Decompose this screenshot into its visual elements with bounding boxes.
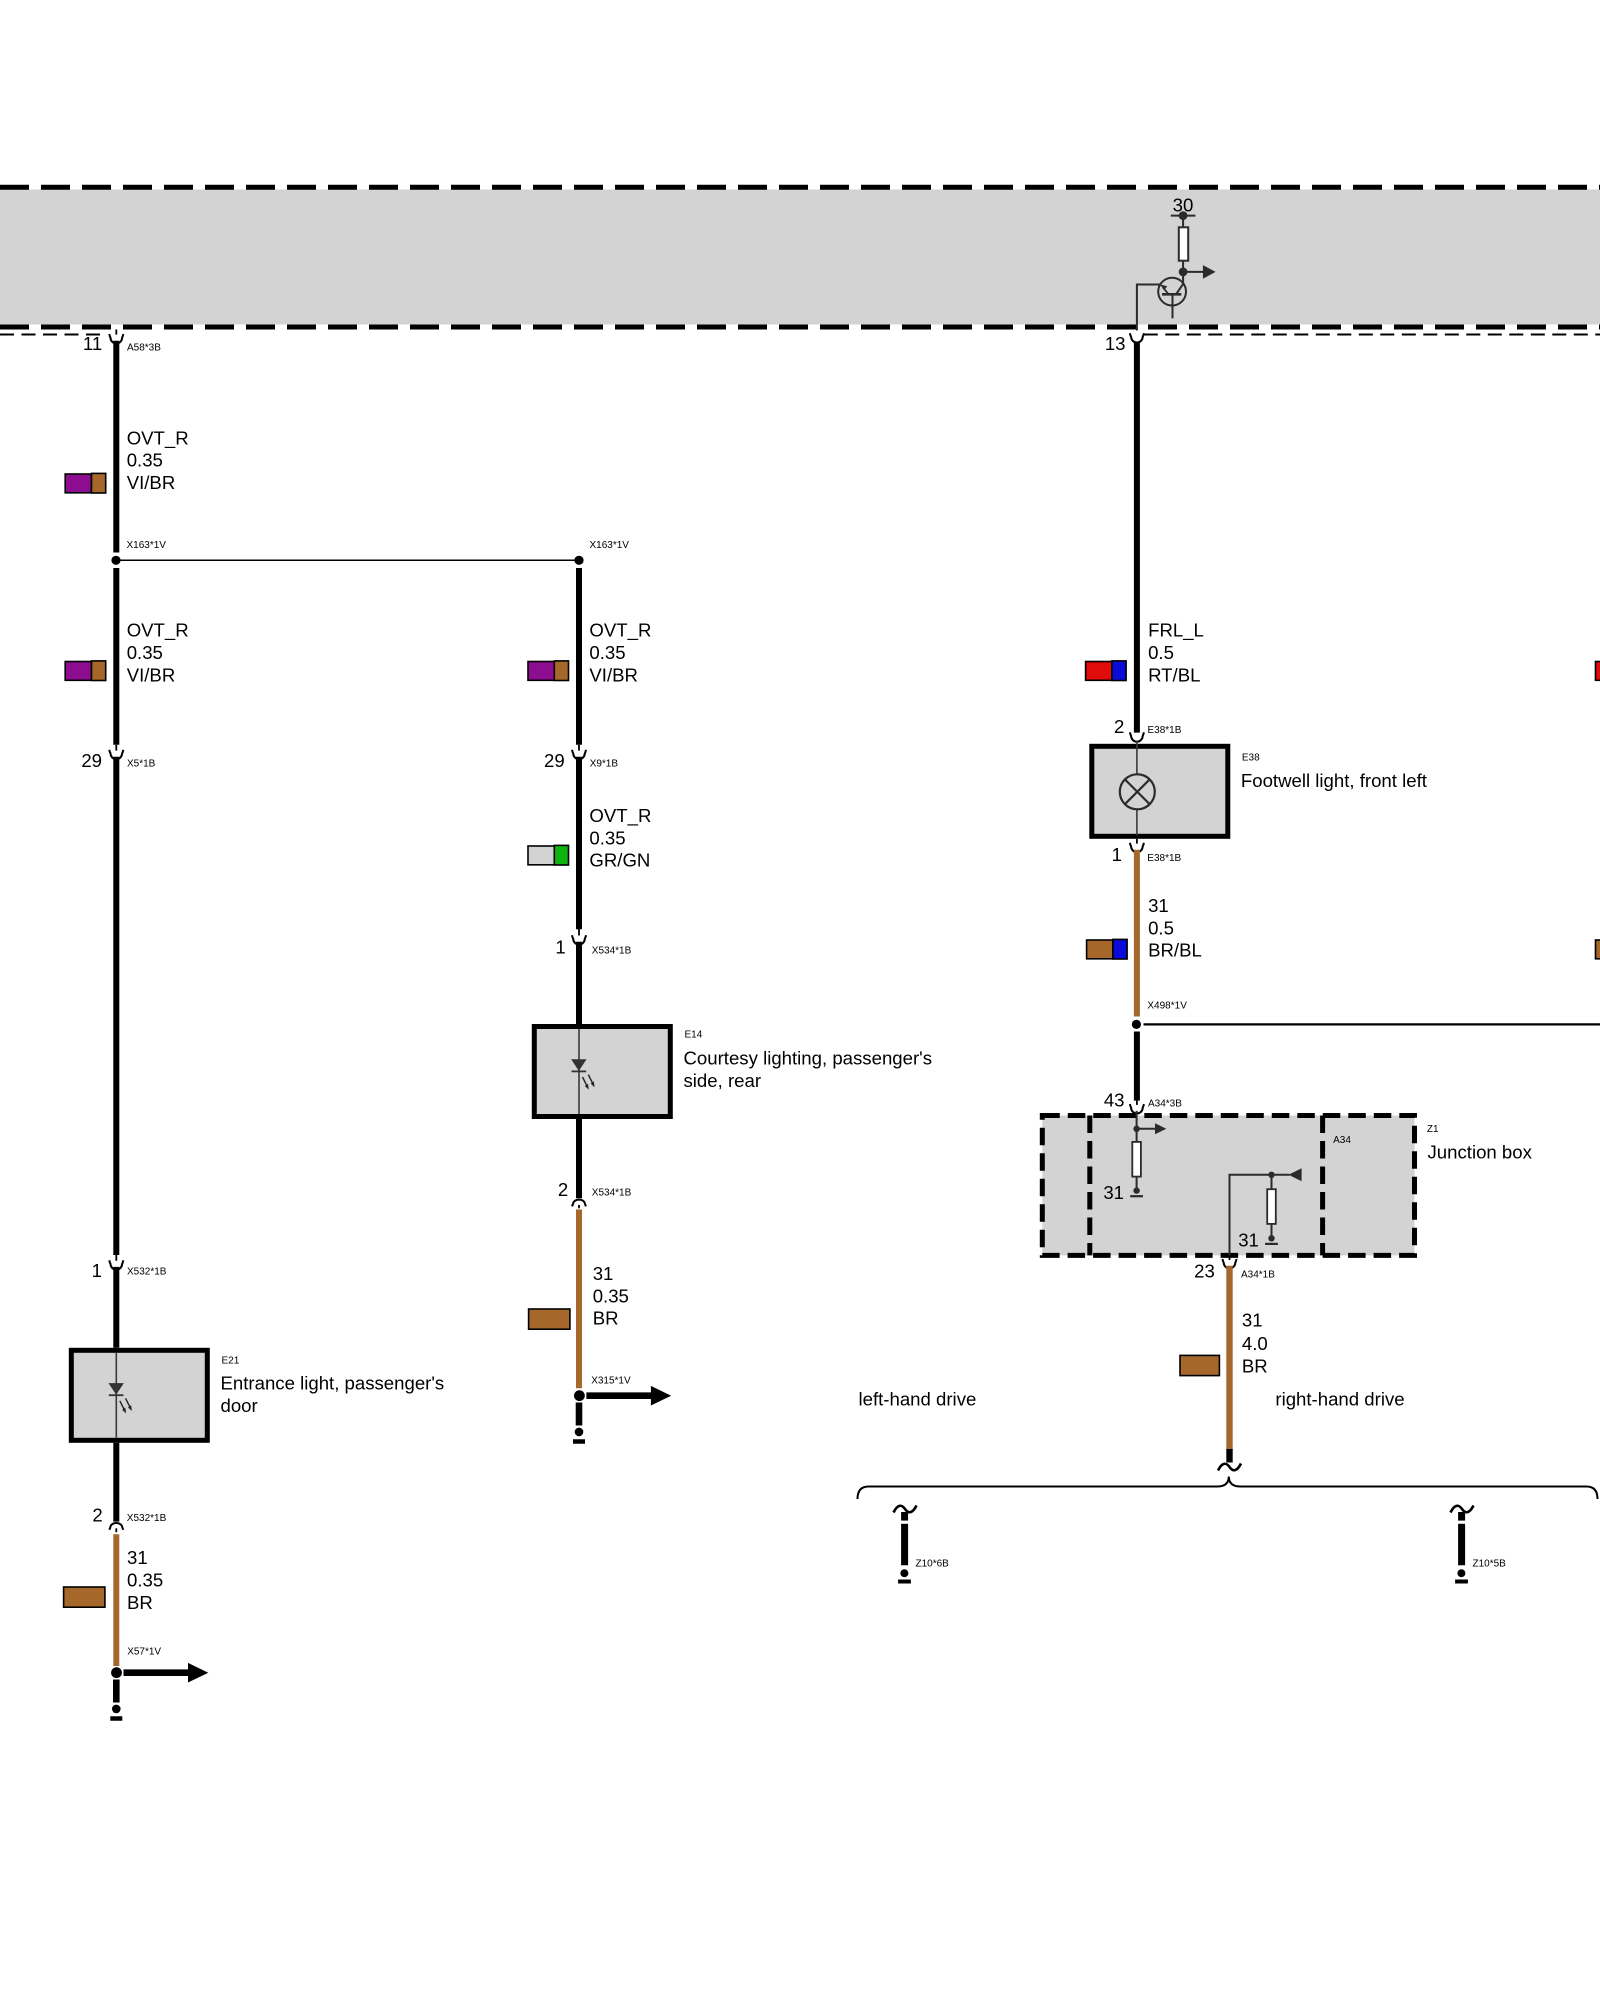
svg-text:29: 29 [544, 750, 565, 771]
node X57*1V [110, 1646, 208, 1718]
svg-text:A34*1B: A34*1B [1241, 1269, 1275, 1280]
svg-text:side, rear: side, rear [684, 1070, 762, 1091]
brown wire 2 to X57 [113, 1534, 119, 1666]
brown wire 4.0 [1226, 1266, 1232, 1450]
connector 13 [1105, 333, 1144, 354]
wire colour swatch VI/BR (3) [528, 661, 569, 681]
emitter arrow [1163, 288, 1168, 294]
wire colour swatch BR (2) [529, 1309, 570, 1329]
svg-text:X163*1V: X163*1V [127, 540, 167, 551]
svg-text:BR: BR [127, 1592, 153, 1613]
svg-text:E38*1B: E38*1B [1147, 853, 1181, 864]
wire label OVT_R 0.35 VI/BR (2) [127, 620, 189, 686]
svg-text:VI/BR: VI/BR [127, 472, 176, 493]
svg-text:0.35: 0.35 [127, 1570, 163, 1591]
wire colour swatch GR/GN [528, 845, 569, 865]
crossover wire X498 to right edge [1144, 1023, 1600, 1025]
svg-text:X532*1B: X532*1B [127, 1513, 167, 1524]
svg-text:43: 43 [1104, 1089, 1125, 1110]
wire label FRL_L 0.5 RT/BL [1148, 620, 1204, 686]
svg-text:BR: BR [593, 1308, 619, 1329]
collector diagonal [1177, 284, 1184, 294]
svg-text:0.5: 0.5 [1148, 642, 1174, 663]
node X498*1V [1132, 1001, 1187, 1029]
module border bottom dashed [0, 325, 1600, 330]
wire colour swatch BR/BL [1087, 939, 1128, 959]
control module gray band [0, 187, 1600, 334]
wire segment X498 to 43 [1134, 1032, 1140, 1101]
wire colour swatch RT/BL [1086, 661, 1127, 681]
svg-text:2: 2 [92, 1505, 102, 1526]
svg-text:X498*1V: X498*1V [1147, 1001, 1187, 1012]
junction box Z1 [1042, 1116, 1414, 1256]
junction box inner dashed divider right [1320, 1116, 1325, 1256]
svg-text:A34: A34 [1333, 1135, 1351, 1146]
svg-text:left-hand drive: left-hand drive [859, 1389, 977, 1410]
connector 2 X532*1B [92, 1443, 166, 1532]
node X315*1V [573, 1376, 671, 1442]
svg-text:0.35: 0.35 [127, 450, 163, 471]
svg-text:BR: BR [1242, 1355, 1268, 1376]
svg-text:1: 1 [92, 1260, 102, 1281]
svg-text:31: 31 [127, 1547, 148, 1568]
svg-text:X532*1B: X532*1B [127, 1267, 167, 1278]
LED symbol E14 [572, 1060, 586, 1070]
svg-text:Footwell light, front left: Footwell light, front left [1241, 770, 1428, 791]
connector 43 A34*3B [1104, 1089, 1182, 1113]
junction box branch 1 [1103, 1111, 1166, 1203]
svg-text:Junction box: Junction box [1428, 1142, 1533, 1163]
svg-text:X57*1V: X57*1V [127, 1646, 161, 1657]
LED symbol E21 [109, 1384, 123, 1394]
resistor A [1132, 1142, 1141, 1177]
svg-text:X9*1B: X9*1B [590, 759, 619, 770]
transistor Q1 [1137, 278, 1186, 331]
svg-text:A34*3B: A34*3B [1148, 1098, 1182, 1109]
resistor in module [1179, 227, 1188, 260]
svg-text:2: 2 [558, 1179, 568, 1200]
svg-text:31: 31 [1148, 895, 1169, 916]
svg-text:E38*1B: E38*1B [1148, 725, 1182, 736]
wire segment 1 to E14 [576, 942, 582, 1026]
ground Z10*5B [1451, 1506, 1507, 1582]
brown wire 1 to X498 [1134, 850, 1140, 1017]
lamp E38 box [1092, 741, 1228, 836]
svg-text:X163*1V: X163*1V [590, 540, 630, 551]
wire label 31 4.0 BR [1242, 1310, 1268, 1377]
lead below [1172, 294, 1174, 318]
resistor B [1267, 1189, 1276, 1224]
svg-text:29: 29 [81, 750, 102, 771]
svg-text:Entrance light, passenger's: Entrance light, passenger's [221, 1373, 445, 1394]
lamp E21 box [71, 1350, 207, 1440]
svg-text:RT/BL: RT/BL [1148, 664, 1200, 685]
continuation arrow [586, 1392, 653, 1399]
svg-text:E21: E21 [222, 1355, 240, 1366]
connector 1 X534*1B [555, 929, 631, 958]
svg-text:0.35: 0.35 [127, 642, 163, 663]
wire 30 to resistor [1182, 216, 1184, 228]
collector node [1179, 268, 1188, 277]
wire segment 11 to X163 [113, 341, 119, 553]
wire end cap [1226, 1449, 1232, 1463]
connector 11 A58*3B [83, 330, 161, 354]
svg-text:1: 1 [555, 937, 565, 958]
svg-text:FRL_L: FRL_L [1148, 620, 1204, 642]
bulb symbol E38 [1120, 774, 1155, 809]
wire label OVT_R 0.35 GR/GN [589, 805, 651, 871]
connector 2 E38*1B [1114, 716, 1182, 742]
svg-text:X5*1B: X5*1B [127, 759, 156, 770]
svg-text:E14: E14 [685, 1030, 703, 1041]
svg-text:31: 31 [593, 1263, 614, 1284]
svg-text:VI/BR: VI/BR [127, 664, 176, 685]
svg-text:1: 1 [1112, 844, 1122, 865]
connector 1 E38*1B [1112, 839, 1182, 865]
svg-text:OVT_R: OVT_R [589, 805, 651, 827]
connector 29 X5*1B [81, 745, 155, 771]
wire colour swatch BR (3) [1180, 1355, 1219, 1375]
wire colour swatch BR [64, 1587, 105, 1607]
wire segment 1 to E21 [113, 1267, 119, 1348]
svg-text:23: 23 [1194, 1260, 1215, 1281]
stub below [113, 1680, 120, 1703]
connector 2 X534*1B [558, 1117, 632, 1209]
inner module thin dashed border right [1144, 334, 1600, 336]
svg-text:2: 2 [1114, 716, 1124, 737]
wire segment 13 to E38 [1134, 343, 1140, 733]
ground Z10*6B [894, 1506, 950, 1582]
svg-text:VI/BR: VI/BR [589, 664, 638, 685]
wire label OVT_R 0.35 VI/BR (3) [589, 620, 651, 686]
stub below [576, 1403, 583, 1426]
wire label OVT_R 0.35 VI/BR [127, 427, 189, 493]
svg-text:Z10*6B: Z10*6B [916, 1558, 950, 1569]
output arrow right [1183, 271, 1203, 273]
svg-text:13: 13 [1105, 333, 1126, 354]
lamp E14 box [534, 1027, 670, 1117]
svg-text:31: 31 [1103, 1182, 1124, 1203]
svg-text:X315*1V: X315*1V [591, 1376, 631, 1387]
wire segment 29 to 1 [113, 757, 119, 1255]
svg-text:Courtesy lighting, passenger's: Courtesy lighting, passenger's [684, 1048, 933, 1069]
continuation arrow [124, 1669, 191, 1676]
svg-text:OVT_R: OVT_R [127, 427, 189, 449]
wire label 31 0.35 BR [127, 1547, 163, 1613]
wire segment 29 to 1 [576, 757, 582, 930]
wire segment X163 to 29 [576, 568, 582, 745]
svg-text:OVT_R: OVT_R [589, 620, 651, 642]
connector 29 X9*1B [544, 745, 618, 771]
edge swatch BR fragment [1596, 940, 1600, 959]
base bar [1162, 293, 1181, 296]
svg-text:X534*1B: X534*1B [592, 946, 632, 957]
svg-text:Z1: Z1 [1427, 1124, 1439, 1135]
svg-text:0.35: 0.35 [593, 1285, 629, 1306]
inner module thin dashed border left [0, 334, 106, 336]
brown wire 2 to X315 [576, 1210, 582, 1389]
svg-text:0.5: 0.5 [1148, 917, 1174, 938]
svg-text:door: door [221, 1395, 258, 1416]
svg-text:X534*1B: X534*1B [592, 1188, 632, 1199]
ground bar 31 (2) [1265, 1243, 1278, 1245]
wire label 31 0.5 BR/BL [1148, 895, 1202, 961]
svg-text:0.35: 0.35 [589, 642, 625, 663]
base lead [1137, 285, 1161, 331]
svg-text:31: 31 [1238, 1230, 1259, 1251]
module border top dashed [0, 185, 1600, 190]
node X163*1V left [111, 540, 166, 565]
junction box branch 2 [1230, 1168, 1302, 1255]
connector 1 X532*1B [92, 1255, 167, 1281]
ground bar 31 [1130, 1195, 1143, 1197]
wire colour swatch VI/BR (2) [65, 661, 106, 681]
crossover wire X163 to X163 [116, 559, 579, 561]
connector 23 A34*1B [1194, 1255, 1275, 1281]
wire colour swatch VI/BR [65, 473, 106, 493]
wire segment X163 to 29 [113, 568, 119, 745]
wire resistor to collector node [1182, 261, 1184, 284]
wire label 31 0.35 BR (2) [593, 1263, 629, 1329]
edge swatch RT fragment [1596, 662, 1600, 681]
junction box inner dashed divider left [1087, 1116, 1092, 1256]
svg-text:BR/BL: BR/BL [1148, 940, 1202, 961]
svg-text:right-hand drive: right-hand drive [1275, 1389, 1404, 1410]
wire break squiggle [1218, 1464, 1241, 1471]
node on terminal 30 [1179, 211, 1188, 220]
terminal 30 rail [1171, 215, 1196, 217]
svg-text:OVT_R: OVT_R [127, 620, 189, 642]
svg-text:31: 31 [1242, 1310, 1263, 1331]
svg-text:E38: E38 [1242, 753, 1260, 764]
svg-text:4.0: 4.0 [1242, 1333, 1268, 1354]
svg-text:0.35: 0.35 [589, 827, 625, 848]
svg-text:GR/GN: GR/GN [589, 850, 650, 871]
svg-text:A58*3B: A58*3B [127, 342, 161, 353]
svg-text:Z10*5B: Z10*5B [1473, 1558, 1507, 1569]
svg-text:11: 11 [83, 333, 102, 354]
node X163*1V right [574, 540, 629, 565]
brace [858, 1477, 1598, 1500]
